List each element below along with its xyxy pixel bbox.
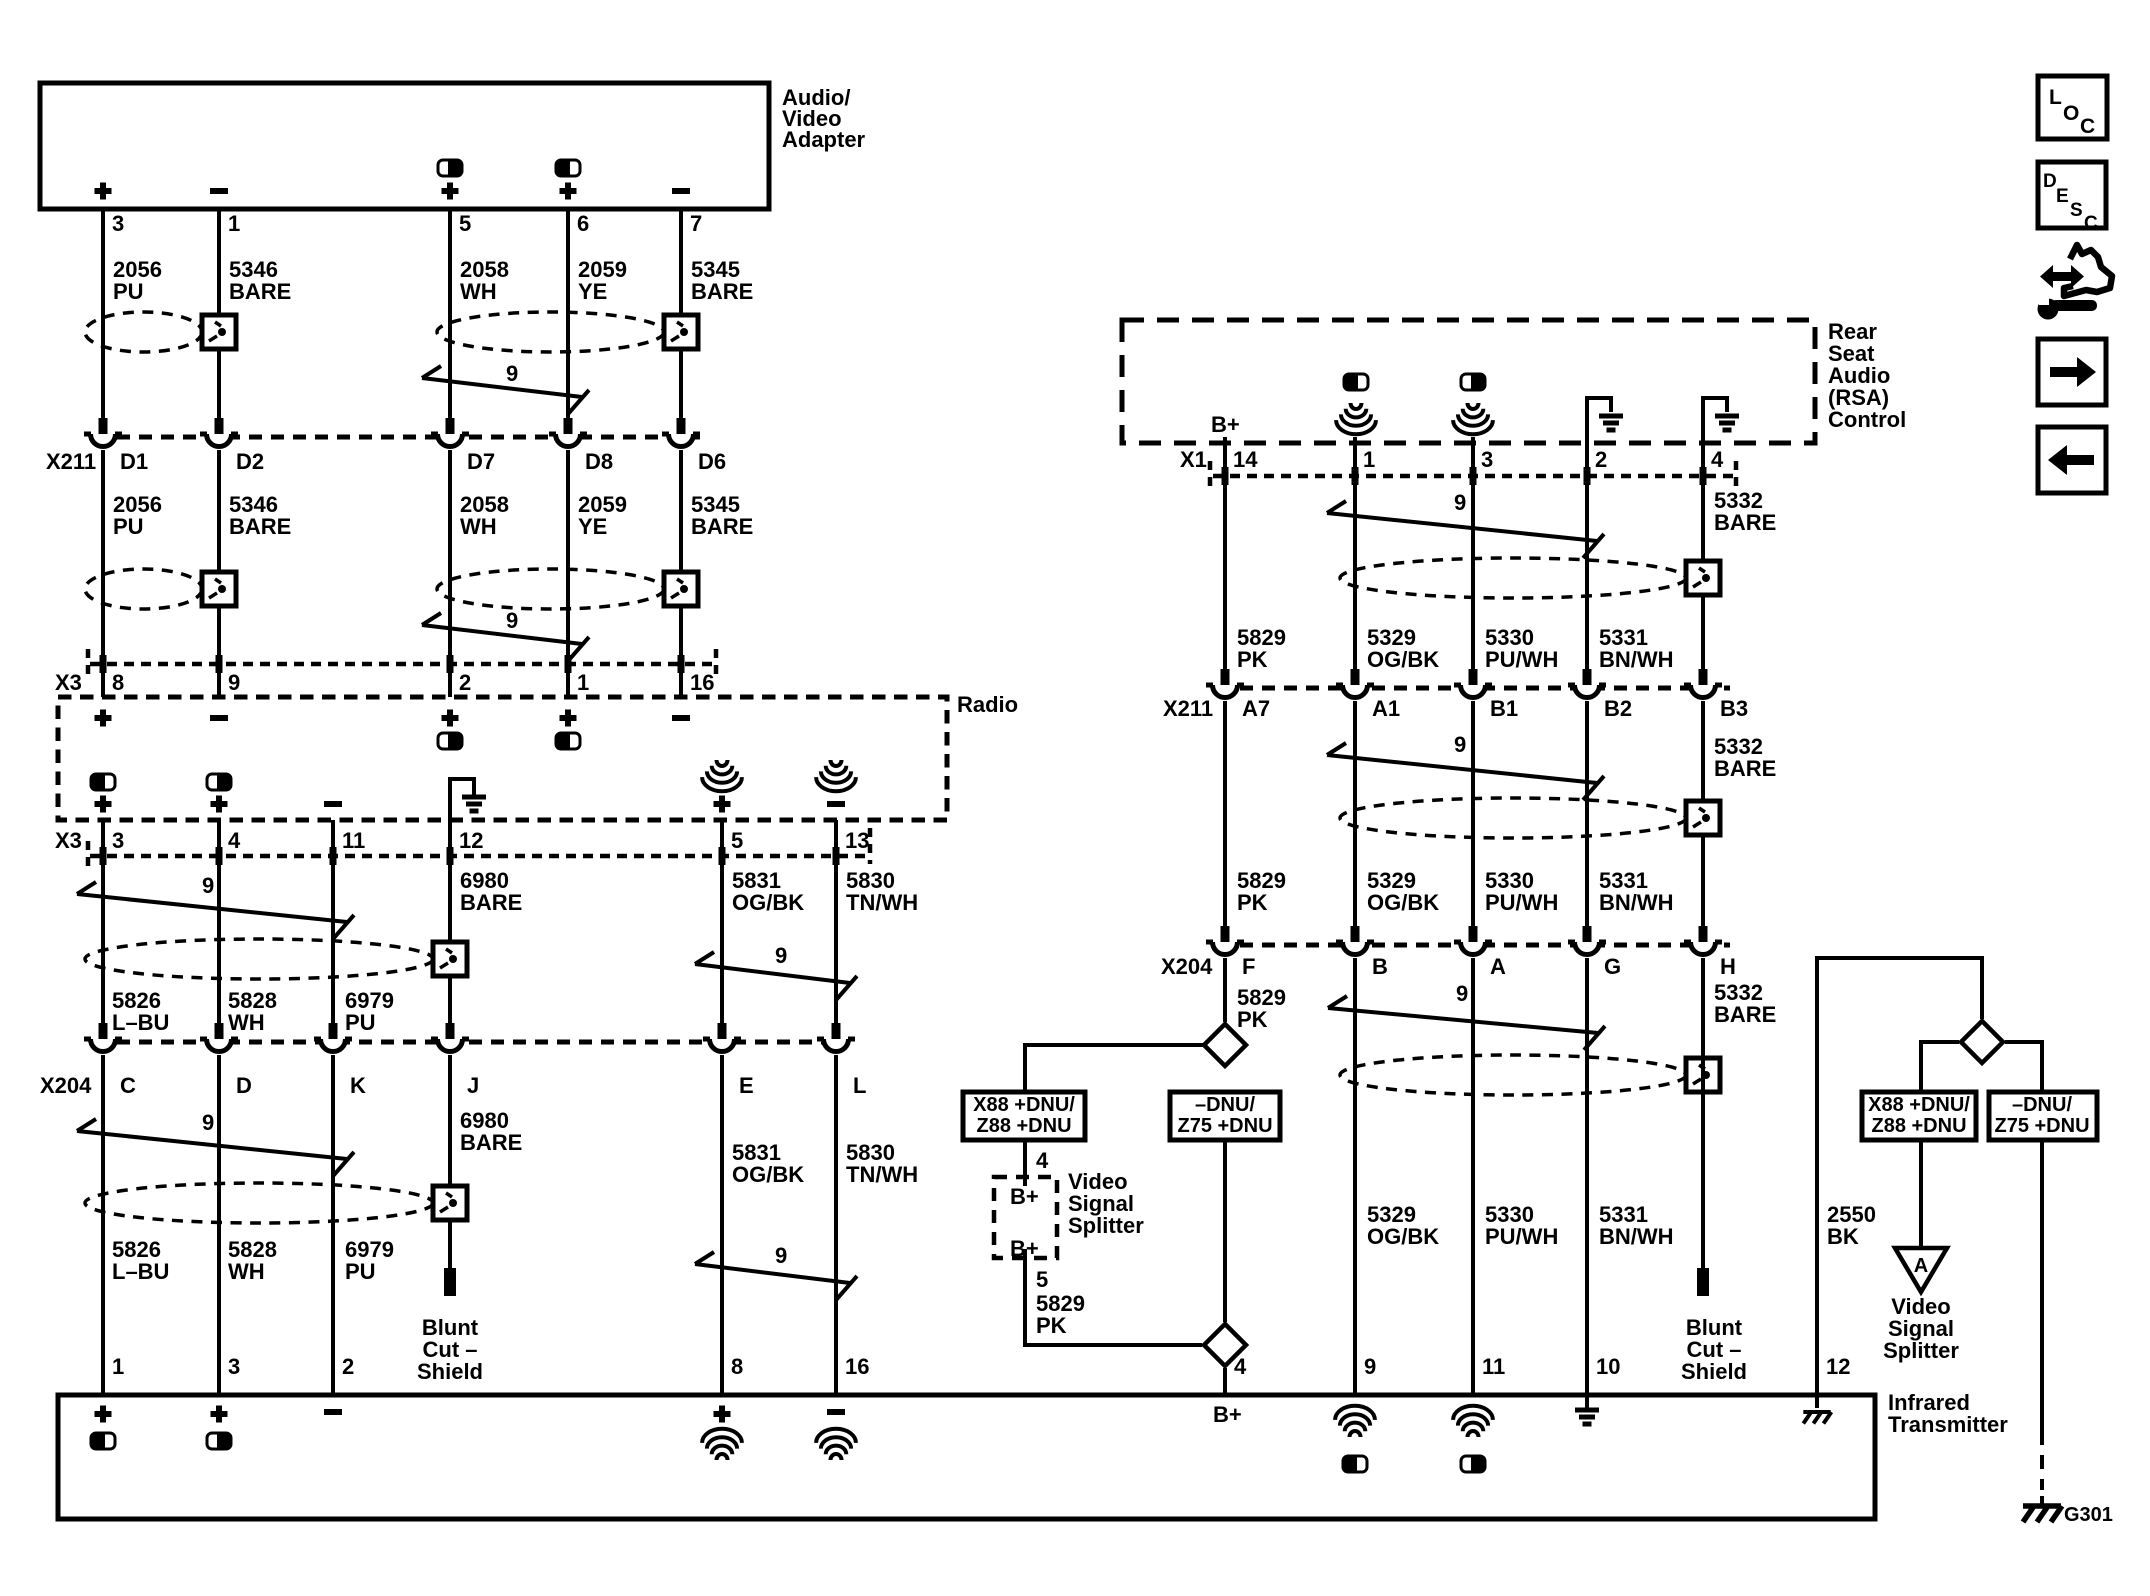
svg-text:PK: PK	[1036, 1313, 1067, 1338]
twisted pair ellipse wires 2056/5346	[85, 312, 202, 352]
wire from X204 J down	[448, 1055, 452, 1268]
ground symbol at IR pin 10	[1585, 1395, 1589, 1408]
wire from Audio/Video Adapter pin 3 to X211 D-row	[101, 209, 105, 419]
svg-text:3: 3	[1481, 447, 1493, 472]
wire from RSA X1 pin 2 to X211	[1585, 437, 1589, 670]
wire from X211 A7 to X204	[1223, 701, 1227, 929]
connector X1 pin 2 crossing	[1584, 467, 1591, 485]
connector X211 pin B2	[1568, 669, 1606, 704]
svg-text:K: K	[350, 1073, 366, 1098]
wire from RSA X1 pin 14 to X211	[1223, 437, 1227, 670]
svg-text:L–BU: L–BU	[112, 1259, 169, 1284]
svg-text:X88 +DNU/: X88 +DNU/	[1868, 1094, 1970, 1116]
speaker polarity icon radio pin 4	[207, 774, 231, 790]
legend icon LOC	[2038, 76, 2107, 139]
wire splitter pin 5 to splice 2	[1025, 1258, 1202, 1345]
connector X3 pin 8 crossing	[100, 655, 107, 673]
wire from RSA X1 pin 1 to X211	[1353, 437, 1357, 670]
speaker polarity icon RSA pin 1	[1344, 374, 1368, 390]
twisted pair ellipse RSA wires	[1340, 558, 1686, 598]
shield symbol on wire 5332 BARE	[1686, 561, 1720, 595]
svg-text:8: 8	[112, 670, 124, 695]
svg-text:9: 9	[202, 1110, 214, 1135]
svg-text:S: S	[2070, 200, 2083, 221]
wire from radio X3 pin 11 toward X204	[331, 820, 335, 1023]
svg-text:PU/WH: PU/WH	[1485, 1224, 1558, 1249]
wire 5345 BARE from X211 D6 to Radio X3	[679, 450, 683, 697]
svg-text:J: J	[467, 1073, 479, 1098]
connector X211 pin D8	[549, 418, 587, 453]
continuation arrow 9 across E/L wires (lower)	[695, 1252, 857, 1300]
svg-text:L: L	[2049, 86, 2062, 109]
svg-text:WH: WH	[460, 514, 497, 539]
junction block X88 +DNU/Z88 +DNU	[963, 1092, 1085, 1140]
wire 2058 WH from X211 D7 to Radio X3	[448, 450, 452, 697]
svg-text:1: 1	[228, 211, 240, 236]
speaker polarity icon radio pin 1	[556, 733, 580, 749]
wire from Audio/Video Adapter pin 6 to X211 D-row	[566, 209, 570, 419]
wire -DNU block down to splice 2	[1223, 1140, 1227, 1322]
video signal splitter triangle A	[1895, 1248, 1947, 1292]
chassis ground symbol at IR pin 12	[1815, 1395, 1819, 1408]
continuation arrow 9 across wires 5826/5828/6979	[77, 882, 354, 939]
svg-text:X1: X1	[1180, 447, 1207, 472]
connector X211 bus line (right)	[1218, 686, 1730, 691]
svg-text:16: 16	[690, 670, 714, 695]
svg-text:BARE: BARE	[691, 279, 753, 304]
svg-text:3: 3	[228, 1354, 240, 1379]
antenna symbol RSA pin 3	[1453, 403, 1493, 434]
svg-text:TN/WH: TN/WH	[846, 1162, 918, 1187]
connector X1 pin 1 crossing	[1352, 467, 1359, 485]
wire from X211 B2 to X204	[1585, 701, 1589, 929]
wire from Audio/Video Adapter pin 1 to X211 D-row	[217, 209, 221, 419]
svg-text:C: C	[2084, 213, 2098, 234]
connector X3 pin 5 crossing	[719, 847, 726, 865]
svg-text:F: F	[1242, 954, 1255, 979]
svg-text:X88 +DNU/: X88 +DNU/	[973, 1094, 1075, 1116]
antenna symbol IR pin 9	[1335, 1406, 1375, 1437]
connector X211 pin D6	[662, 418, 700, 453]
connector X3 pin 12 crossing	[447, 847, 454, 865]
svg-text:1: 1	[112, 1354, 124, 1379]
svg-text:PU: PU	[345, 1259, 376, 1284]
svg-text:Shield: Shield	[417, 1359, 483, 1384]
svg-text:D7: D7	[467, 449, 495, 474]
antenna symbol radio pin 5	[702, 760, 742, 791]
svg-text:4: 4	[1711, 447, 1724, 472]
svg-text:B1: B1	[1490, 696, 1518, 721]
wire stub into splitter box top	[1023, 1177, 1027, 1186]
svg-text:WH: WH	[228, 1010, 265, 1035]
splice diamond on circuit 5829	[1204, 1024, 1246, 1066]
polarity + at radio X3 pin 4	[211, 796, 228, 813]
svg-text:OG/BK: OG/BK	[732, 890, 804, 915]
connector X3 pin 3 crossing	[100, 847, 107, 865]
connector X3 pin 16 crossing	[678, 655, 685, 673]
continuation arrow 9 across wires 2058/2059	[422, 366, 589, 414]
svg-text:A: A	[1490, 954, 1506, 979]
branch wires from 2550 splice to junction blocks	[1921, 1042, 2042, 1092]
svg-text:8: 8	[731, 1354, 743, 1379]
svg-text:B+: B+	[1213, 1402, 1242, 1427]
svg-text:1: 1	[1363, 447, 1375, 472]
svg-text:YE: YE	[578, 279, 607, 304]
polarity + at pin 6	[560, 183, 577, 200]
svg-text:H: H	[1720, 954, 1736, 979]
wire X88 block down to video signal splitter A	[1919, 1140, 1923, 1248]
svg-text:BN/WH: BN/WH	[1599, 890, 1674, 915]
wire 2056 PU from X211 D1 to Radio X3	[101, 450, 105, 697]
svg-text:Splitter: Splitter	[1068, 1213, 1144, 1238]
connector X204 pin J	[431, 1023, 469, 1058]
dashed wire to ground G301	[2040, 1431, 2044, 1490]
wire splice 2 to IR pin 4	[1223, 1368, 1227, 1395]
legend icon vehicle data exchange with wrench	[2040, 265, 2084, 288]
polarity + at pin 3	[95, 183, 112, 200]
svg-text:2: 2	[459, 670, 471, 695]
svg-text:12: 12	[1826, 1354, 1850, 1379]
svg-text:9: 9	[1364, 1354, 1376, 1379]
svg-text:BARE: BARE	[460, 890, 522, 915]
svg-text:X3: X3	[55, 670, 82, 695]
ground symbol RSA pin 4	[1715, 416, 1739, 430]
polarity - at pin 1	[210, 188, 228, 194]
svg-text:B+: B+	[1010, 1236, 1039, 1261]
svg-text:X3: X3	[55, 828, 82, 853]
component box: Video Signal Splitter (dashed)	[994, 1177, 1057, 1258]
svg-text:5: 5	[459, 211, 471, 236]
svg-text:12: 12	[459, 828, 483, 853]
speaker polarity icon IR pin 9	[1343, 1456, 1367, 1472]
chassis ground G301	[2040, 1496, 2044, 1504]
continuation arrow 9 across wires 5831/5830	[695, 952, 857, 1000]
svg-text:BARE: BARE	[1714, 1002, 1776, 1027]
wire from X211 B3 to X204	[1701, 701, 1705, 929]
wire from X204 L down	[834, 1055, 838, 1395]
continuation arrow 9 across wires below X211 right	[1327, 743, 1604, 800]
polarity + at IR pin 8	[714, 1406, 731, 1423]
wire from radio X3 pin 3 toward X204	[101, 820, 105, 1023]
speaker polarity icon radio pin 2	[438, 733, 462, 749]
speaker polarity icon above pin 5	[438, 160, 462, 176]
connector X211 pin D2	[200, 418, 238, 453]
antenna symbol IR pin 16	[816, 1429, 856, 1460]
wire from Audio/Video Adapter pin 5 to X211 D-row	[448, 209, 452, 419]
svg-text:5: 5	[731, 828, 743, 853]
svg-text:Z75 +DNU: Z75 +DNU	[1994, 1115, 2089, 1137]
polarity + at IR pin 1	[95, 1406, 112, 1423]
polarity - at IR pin 16	[827, 1409, 845, 1415]
svg-text:BARE: BARE	[460, 1130, 522, 1155]
svg-text:BARE: BARE	[1714, 756, 1776, 781]
svg-text:BK: BK	[1827, 1224, 1859, 1249]
RSA internal ground wire pin 2	[1587, 398, 1611, 443]
svg-text:4: 4	[1036, 1148, 1049, 1173]
blunt cut shield stub on wire 5332	[1697, 1268, 1709, 1296]
wire from X204 D down	[217, 1055, 221, 1395]
component box: Audio/Video Adapter U1	[40, 83, 769, 209]
connector X211 pin A7	[1206, 669, 1244, 704]
svg-text:G301: G301	[2064, 1504, 2113, 1526]
connector X204 pin F	[1206, 926, 1244, 961]
continuation arrow 9 across X204 C/D/K wires	[77, 1119, 354, 1176]
junction block X88 +DNU/Z88 +DNU (right)	[1862, 1092, 1976, 1140]
svg-text:Radio: Radio	[957, 692, 1018, 717]
connector X1 pin 14 crossing	[1222, 467, 1229, 485]
svg-text:B+: B+	[1211, 412, 1240, 437]
polarity + at radio X3 pin 8	[95, 710, 112, 727]
svg-text:2: 2	[342, 1354, 354, 1379]
wire X204 A down to IR pin 11	[1471, 958, 1475, 1395]
speaker polarity icon radio pin 3	[91, 774, 115, 790]
wire from X211 B1 to X204	[1471, 701, 1475, 929]
svg-text:PK: PK	[1237, 647, 1268, 672]
shield symbol on wire 5346 BARE (second)	[202, 572, 236, 606]
twisted pair ellipse below X211 right	[1340, 798, 1686, 838]
svg-text:C: C	[2080, 115, 2095, 138]
svg-text:PU/WH: PU/WH	[1485, 890, 1558, 915]
junction block -DNU/Z75 +DNU	[1170, 1092, 1280, 1140]
svg-text:PU: PU	[113, 514, 144, 539]
svg-text:G: G	[1604, 954, 1621, 979]
continuation arrow 9 across wires 2058/2059 (second)	[422, 613, 589, 661]
svg-text:11: 11	[342, 828, 365, 853]
polarity - at IR pin 2	[324, 1409, 342, 1415]
ground symbol inside radio	[462, 797, 486, 811]
speaker polarity icon RSA pin 3	[1461, 374, 1485, 390]
svg-text:D8: D8	[585, 449, 613, 474]
connector X204 bus line (right)	[1218, 943, 1730, 948]
connector X3 pin 9 crossing	[216, 655, 223, 673]
connector X204 pin H	[1684, 926, 1722, 961]
wire from RSA X1 pin 4 to X211	[1701, 437, 1705, 670]
connector X204 pin K	[314, 1023, 352, 1058]
wire from RSA X1 pin 3 to X211	[1471, 437, 1475, 670]
svg-text:OG/BK: OG/BK	[1367, 890, 1439, 915]
connector X204 pin A	[1454, 926, 1492, 961]
connector X204 pin D	[200, 1023, 238, 1058]
svg-text:D: D	[2043, 171, 2057, 192]
svg-text:PK: PK	[1237, 890, 1268, 915]
twisted pair ellipse wires 2058/2059 (second)	[437, 569, 664, 609]
connector X211 pin D1	[84, 418, 122, 453]
svg-text:16: 16	[845, 1354, 869, 1379]
shield symbol on wire 5345 BARE (second)	[664, 572, 698, 606]
polarity - at radio X3 pin 16	[672, 715, 690, 721]
svg-text:OG/BK: OG/BK	[732, 1162, 804, 1187]
RSA internal ground wire pin 4	[1703, 398, 1727, 443]
twisted pair ellipse wires 2056/5346 (second)	[85, 569, 202, 609]
connector X3 pin 1 crossing	[565, 655, 572, 673]
connector X211 bus line (left)	[95, 435, 700, 440]
connector X211 pin A1	[1336, 669, 1374, 704]
svg-text:9: 9	[1456, 981, 1468, 1006]
wire 2059 YE from X211 D8 to Radio X3	[566, 450, 570, 697]
wire from X211 A1 to X204	[1353, 701, 1357, 929]
svg-text:B: B	[1372, 954, 1388, 979]
svg-text:A: A	[1914, 1255, 1928, 1277]
speaker polarity icon above pin 6	[556, 160, 580, 176]
svg-text:9: 9	[1454, 490, 1466, 515]
svg-text:14: 14	[1233, 447, 1258, 472]
polarity - at radio X3 pin 11	[324, 801, 342, 807]
svg-text:7: 7	[690, 211, 702, 236]
svg-text:9: 9	[775, 1243, 787, 1268]
radio internal ground wire for pin 12	[450, 779, 474, 820]
svg-text:Z75 +DNU: Z75 +DNU	[1177, 1115, 1272, 1137]
wire from X204 K down	[331, 1055, 335, 1395]
svg-text:10: 10	[1596, 1354, 1620, 1379]
connector X211 pin B1	[1454, 669, 1492, 704]
wire branch from splice to X88 junction	[1025, 1045, 1203, 1092]
shield symbol on wire 5346 BARE	[202, 315, 236, 349]
wire from X204 C down	[101, 1055, 105, 1395]
connector X3 pin 13 crossing	[833, 847, 840, 865]
wire X204 H down to blunt cut	[1701, 958, 1705, 1268]
polarity + at radio X3 pin 1	[560, 710, 577, 727]
twisted pair ellipse wires 2058/2059	[437, 312, 664, 352]
svg-text:5: 5	[1036, 1267, 1048, 1292]
wire from radio X3 pin 5 toward X204	[720, 820, 724, 1023]
wire from radio X3 pin 13 toward X204	[834, 820, 838, 1023]
connector X204 pin B	[1336, 926, 1374, 961]
antenna symbol RSA pin 1	[1336, 403, 1376, 434]
svg-text:PU: PU	[113, 279, 144, 304]
splice diamond 2 on circuit 5829	[1204, 1324, 1246, 1366]
component box: Infrared Transmitter	[58, 1395, 1875, 1519]
continuation arrow 9 across RSA wires	[1327, 501, 1604, 558]
connector X3 pin 4 crossing	[216, 847, 223, 865]
svg-text:TN/WH: TN/WH	[846, 890, 918, 915]
svg-text:3: 3	[112, 211, 124, 236]
wire X204 B down to IR pin 9	[1353, 958, 1357, 1395]
svg-text:A1: A1	[1372, 696, 1400, 721]
svg-text:PU: PU	[345, 1010, 376, 1035]
svg-text:OG/BK: OG/BK	[1367, 647, 1439, 672]
shield symbol on wire 6980 BARE	[433, 942, 467, 976]
wire from radio X3 pin 12 toward X204	[448, 820, 452, 1023]
connector X1 pin 4 crossing	[1700, 467, 1707, 485]
svg-text:Control: Control	[1828, 407, 1906, 432]
wire 5346 BARE from X211 D2 to Radio X3	[217, 450, 221, 697]
twisted pair ellipse wires to X204 C/D/K	[85, 939, 433, 979]
wire 2550 BK from IR pin 12 up and over	[1817, 958, 1982, 1395]
svg-text:O: O	[2063, 102, 2079, 125]
component box: Radio (dashed)	[58, 697, 947, 820]
svg-text:YE: YE	[578, 514, 607, 539]
svg-text:13: 13	[845, 828, 869, 853]
svg-text:PK: PK	[1237, 1007, 1268, 1032]
svg-text:Splitter: Splitter	[1883, 1338, 1959, 1363]
svg-text:9: 9	[506, 608, 518, 633]
svg-text:X204: X204	[40, 1073, 92, 1098]
connector X204 bus line (left)	[95, 1040, 850, 1045]
svg-text:–DNU/: –DNU/	[2012, 1094, 2072, 1116]
speaker polarity icon IR pin 1	[91, 1433, 115, 1449]
svg-text:BN/WH: BN/WH	[1599, 1224, 1674, 1249]
connector X3 pin 2 crossing	[447, 655, 454, 673]
svg-text:1: 1	[577, 670, 589, 695]
svg-text:WH: WH	[460, 279, 497, 304]
legend icon forward arrow	[2038, 339, 2106, 405]
svg-text:2: 2	[1595, 447, 1607, 472]
antenna symbol IR pin 8	[702, 1429, 742, 1460]
junction block -DNU/Z75 +DNU (right)	[1989, 1092, 2097, 1140]
svg-text:B2: B2	[1604, 696, 1632, 721]
svg-text:11: 11	[1482, 1354, 1505, 1379]
svg-text:L: L	[853, 1073, 866, 1098]
blunt cut shield stub on wire 6980	[444, 1268, 456, 1296]
svg-text:6: 6	[577, 211, 589, 236]
svg-text:WH: WH	[228, 1259, 265, 1284]
wire from radio X3 pin 4 toward X204	[217, 820, 221, 1023]
svg-text:BARE: BARE	[691, 514, 753, 539]
svg-text:PU/WH: PU/WH	[1485, 647, 1558, 672]
connector X1 pin 3 crossing	[1470, 467, 1477, 485]
svg-text:Z88 +DNU: Z88 +DNU	[1871, 1115, 1966, 1137]
svg-text:9: 9	[228, 670, 240, 695]
svg-text:9: 9	[775, 943, 787, 968]
antenna symbol IR pin 11	[1453, 1406, 1493, 1437]
svg-text:X211: X211	[46, 449, 96, 474]
wire X204 F down to splice	[1223, 958, 1227, 1022]
svg-text:BN/WH: BN/WH	[1599, 647, 1674, 672]
polarity + at radio X3 pin 5	[714, 796, 731, 813]
svg-text:BARE: BARE	[229, 279, 291, 304]
connector X3 pin 11 crossing	[330, 847, 337, 865]
antenna symbol radio pin 13	[816, 760, 856, 791]
svg-text:4: 4	[228, 828, 241, 853]
continuation arrow 9 across wires below X204 right	[1328, 996, 1605, 1050]
svg-text:Adapter: Adapter	[782, 127, 866, 152]
ground symbol RSA pin 2	[1599, 416, 1623, 430]
svg-text:BARE: BARE	[1714, 510, 1776, 535]
svg-text:Transmitter: Transmitter	[1888, 1412, 2008, 1437]
polarity + at pin 5	[442, 183, 459, 200]
polarity + at radio X3 pin 3	[95, 796, 112, 813]
connector X204 pin C	[84, 1023, 122, 1058]
svg-text:D: D	[236, 1073, 252, 1098]
twisted pair ellipse below X204 right	[1340, 1055, 1686, 1095]
shield symbol on wire 5332 BARE (third)	[1686, 1058, 1720, 1092]
speaker polarity icon IR pin 11	[1461, 1456, 1485, 1472]
connector X1 line	[1213, 474, 1734, 479]
svg-text:9: 9	[202, 873, 214, 898]
wire -DNU block down toward G301	[2040, 1140, 2044, 1431]
svg-text:9: 9	[1454, 732, 1466, 757]
wire X204 G down to IR pin 10	[1585, 958, 1589, 1395]
shield symbol on wire 5332 BARE (second)	[1686, 801, 1720, 835]
twisted pair ellipse below X204 C/D/K	[85, 1183, 433, 1223]
connector X3 line (radio top)	[90, 662, 716, 667]
shield symbol on wire 6980 BARE (lower)	[433, 1186, 467, 1220]
connector X3 line (radio bottom)	[90, 854, 868, 859]
connector X204 pin G	[1568, 926, 1606, 961]
svg-text:C: C	[120, 1073, 136, 1098]
svg-text:D6: D6	[698, 449, 726, 474]
connector X211 pin B3	[1684, 669, 1722, 704]
svg-text:OG/BK: OG/BK	[1367, 1224, 1439, 1249]
svg-text:E: E	[739, 1073, 754, 1098]
svg-text:B3: B3	[1720, 696, 1748, 721]
svg-text:D2: D2	[236, 449, 264, 474]
speaker polarity icon IR pin 3	[207, 1433, 231, 1449]
splice diamond on 2550 branch	[1961, 1021, 2003, 1063]
svg-text:BARE: BARE	[229, 514, 291, 539]
polarity - at radio X3 pin 9	[210, 715, 228, 721]
svg-text:D1: D1	[120, 449, 148, 474]
